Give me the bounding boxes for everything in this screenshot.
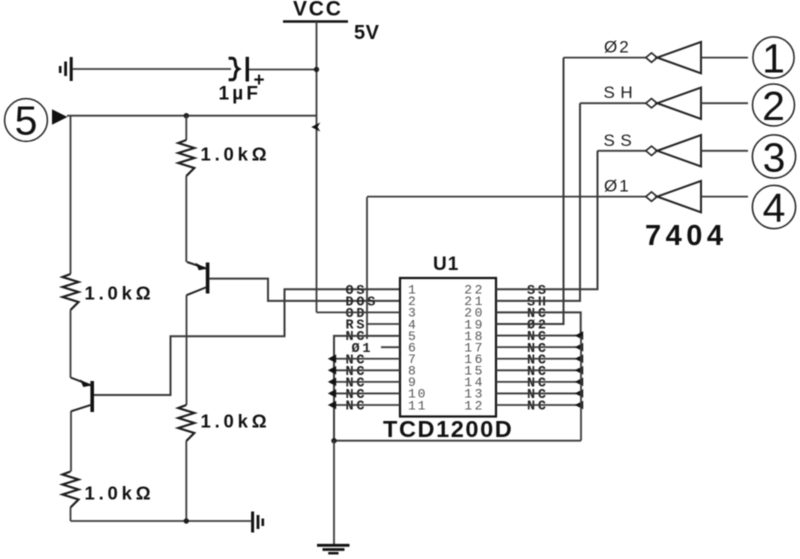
- svg-text:1µF: 1µF: [219, 84, 262, 105]
- svg-text:2: 2: [762, 83, 785, 129]
- svg-text:12: 12: [464, 398, 485, 413]
- svg-text:Ø1: Ø1: [604, 177, 631, 196]
- svg-text:NC: NC: [346, 400, 368, 415]
- svg-text:SS: SS: [604, 131, 638, 150]
- svg-text:NC: NC: [527, 400, 549, 415]
- svg-text:1.0kΩ: 1.0kΩ: [201, 144, 271, 165]
- svg-text:1.0kΩ: 1.0kΩ: [85, 283, 155, 304]
- svg-text:U1: U1: [433, 254, 459, 275]
- svg-text:1: 1: [762, 35, 785, 81]
- svg-text:Ø2: Ø2: [604, 38, 631, 57]
- svg-text:7404: 7404: [645, 220, 728, 252]
- svg-text:1.0kΩ: 1.0kΩ: [85, 483, 155, 504]
- svg-text:TCD1200D: TCD1200D: [383, 416, 513, 442]
- svg-text:VCC: VCC: [293, 0, 343, 21]
- svg-text:4: 4: [763, 185, 786, 231]
- svg-text:11: 11: [408, 398, 427, 413]
- svg-text:5V: 5V: [354, 22, 380, 44]
- svg-text:SH: SH: [604, 83, 639, 102]
- svg-text:5: 5: [15, 98, 38, 144]
- svg-text:3: 3: [763, 134, 786, 180]
- svg-text:1.0kΩ: 1.0kΩ: [201, 411, 271, 432]
